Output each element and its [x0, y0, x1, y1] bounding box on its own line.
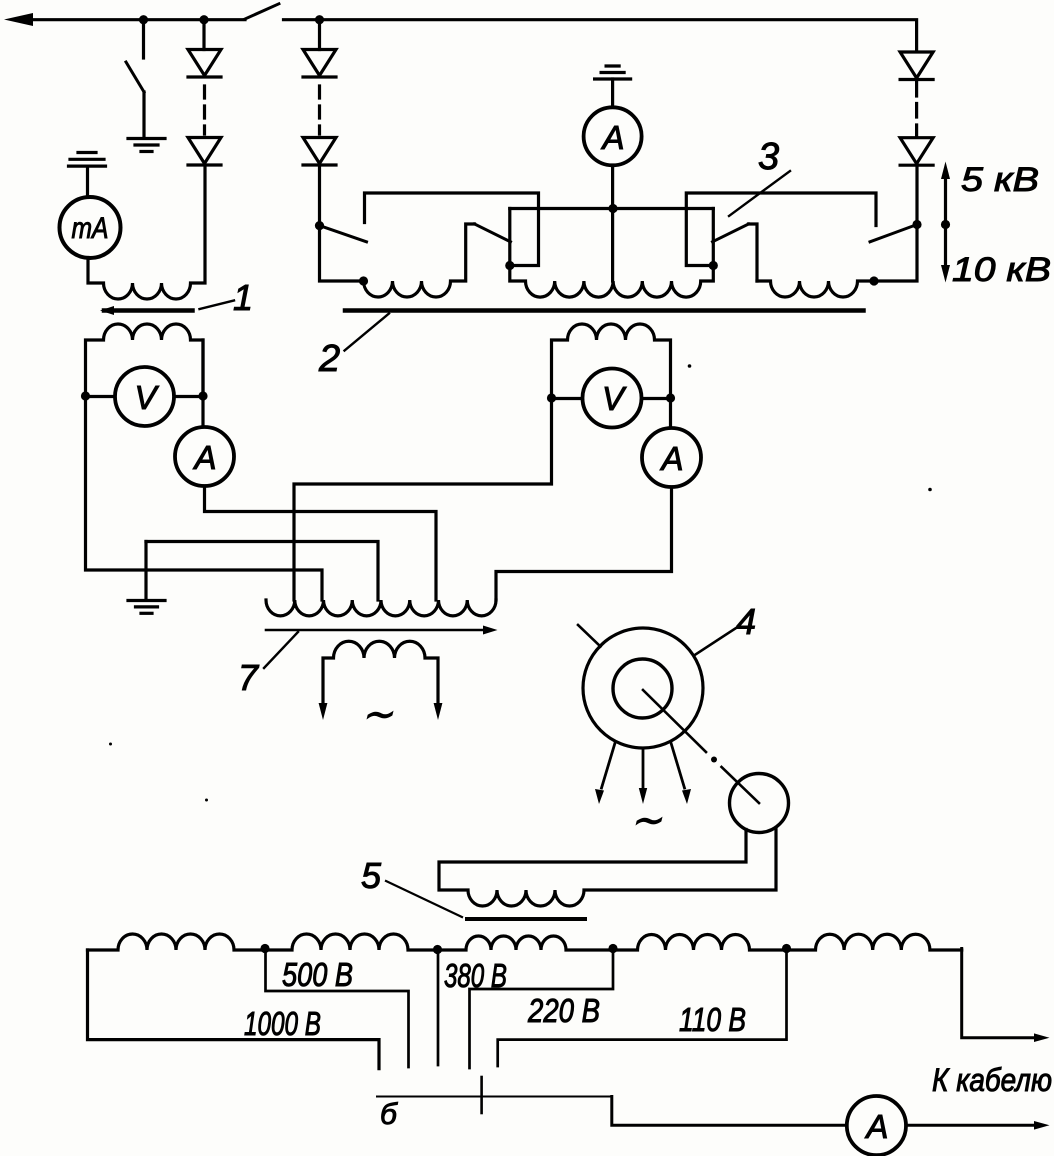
svg-text:4: 4 — [736, 601, 756, 642]
svg-text:5: 5 — [361, 855, 382, 896]
svg-text:380 В: 380 В — [444, 957, 507, 994]
svg-text:К кабелю: К кабелю — [932, 1062, 1052, 1098]
svg-text:A: A — [864, 1108, 888, 1145]
svg-text:7: 7 — [238, 657, 260, 698]
svg-text:220 В: 220 В — [527, 992, 600, 1029]
svg-text:2: 2 — [318, 338, 340, 380]
svg-text:∼: ∼ — [630, 800, 662, 842]
svg-text:500 В: 500 В — [282, 956, 353, 993]
svg-text:V: V — [134, 379, 159, 416]
svg-text:110 В: 110 В — [679, 1001, 746, 1038]
svg-text:A: A — [600, 119, 624, 156]
svg-text:1: 1 — [233, 277, 253, 318]
svg-text:1000 В: 1000 В — [244, 1005, 321, 1042]
svg-text:10 кВ: 10 кВ — [952, 251, 1051, 289]
svg-text:∼: ∼ — [361, 694, 393, 736]
svg-text:A: A — [192, 439, 216, 476]
svg-text:V: V — [602, 380, 627, 417]
svg-text:б: б — [380, 1098, 398, 1131]
svg-text:A: A — [659, 440, 683, 477]
svg-text:5 кВ: 5 кВ — [961, 161, 1039, 199]
svg-text:3: 3 — [758, 136, 779, 178]
svg-text:mA: mA — [72, 212, 109, 245]
